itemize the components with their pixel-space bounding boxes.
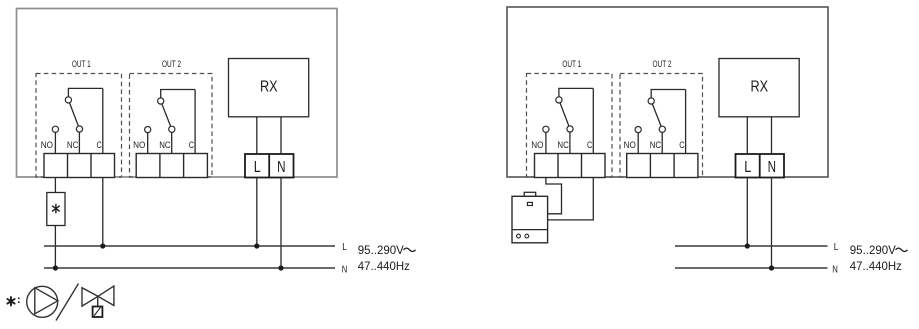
boiler display window (527, 202, 532, 205)
junction: RX L wire on L line (right) (745, 243, 750, 248)
relay K2 pivot contact circle (158, 98, 164, 104)
device enclosure (left receiver unit) (17, 9, 338, 178)
wire: load box down to N line (left) (54, 226, 56, 269)
svg-text:RX: RX (751, 79, 769, 96)
svg-text:L: L (744, 159, 751, 176)
svg-text:OUT 1: OUT 1 (72, 59, 91, 69)
terminal block L/N (right) (736, 154, 785, 178)
wire: RX L terminal down to L line (right) (746, 178, 748, 247)
relay K2 blade tip circle (right) (659, 126, 665, 132)
svg-text:OUT 2: OUT 2 (162, 59, 181, 69)
mains line N (right) (675, 267, 828, 269)
svg-text:RX: RX (260, 79, 278, 96)
valve actuator box (93, 307, 103, 318)
relay K1 contact (right OUT1): common bar wire (559, 88, 593, 100)
svg-text:C: C (189, 140, 195, 150)
junction: RX L wire on L line (left) (254, 243, 259, 248)
wire: N terminal down to N line (left) (280, 178, 282, 269)
svg-text:N: N (768, 159, 776, 176)
relay K2 NO contact circle (right) (635, 127, 641, 133)
relay module OUT1 dashed box (left) (36, 74, 122, 178)
legend colon (18, 298, 20, 304)
svg-text:L: L (342, 241, 347, 253)
svg-text:L: L (254, 159, 261, 176)
AC tilde symbol (left) (404, 248, 416, 251)
svg-text:NC: NC (650, 140, 662, 150)
terminal block OUT2 (right): NO / NC / C (627, 154, 698, 178)
wire: common bar to C terminal (right OUT2) (685, 90, 687, 154)
boiler knob 1 (517, 234, 521, 238)
relay module OUT2 dashed box (right) (620, 74, 703, 178)
valve right wing (98, 286, 114, 306)
wire: L terminal down to L line (left) (256, 178, 258, 247)
relay K1 blade tip circle (76, 126, 82, 132)
svg-text:NC: NC (159, 140, 171, 150)
svg-text:L: L (834, 241, 839, 253)
wire: RX to L terminal (left) (256, 117, 258, 154)
wire: K1 blade tip to NC terminal (left) (78, 129, 80, 154)
svg-text:NO: NO (41, 140, 53, 150)
svg-text:95..290V: 95..290V (358, 243, 404, 257)
svg-text:C: C (587, 140, 593, 150)
svg-text:NC: NC (67, 140, 79, 150)
device enclosure (right receiver unit) (507, 7, 828, 177)
relay K2 contact (left OUT2): common bar wire (161, 90, 195, 102)
boiler body (512, 196, 548, 243)
relay K1 pivot contact circle (right) (556, 97, 562, 103)
terminal block L/N (left) (245, 154, 294, 178)
boiler / controlled appliance symbol (512, 192, 548, 243)
wire: NO terminal down to load box (left) (54, 178, 56, 193)
svg-text:OUT 2: OUT 2 (653, 59, 672, 69)
svg-text:NC: NC (557, 140, 569, 150)
wire: C terminal down to L line (left) (102, 178, 104, 247)
legend asterisk (7, 297, 14, 305)
relay K2 blade tip circle (169, 126, 175, 132)
svg-text:C: C (97, 140, 103, 150)
valve left wing (82, 288, 98, 306)
wire: NO contact stub (right OUT2) (637, 130, 639, 154)
RX receiver box (left) (229, 59, 309, 117)
motorized valve symbol (bowtie with actuator) (82, 286, 114, 317)
relay K2 blade (left OUT2) (161, 101, 172, 129)
relay K2 blade (right OUT2) (651, 101, 662, 129)
wire: common bar to C terminal (left OUT1) (102, 88, 104, 153)
relay K2 NO contact circle (145, 127, 151, 133)
valve stem (97, 296, 99, 306)
relay K1 blade (right OUT1) (559, 100, 570, 129)
relay K1 pivot contact circle (65, 97, 71, 103)
svg-text:47..440Hz: 47..440Hz (358, 259, 410, 273)
wire: NO terminal to boiler (right, with jog) (546, 178, 562, 214)
relay K1 blade tip circle (right) (567, 126, 573, 132)
wire: NO contact stub (right OUT1) (545, 129, 547, 153)
wire: K1 blade tip to NC terminal (right) (569, 129, 571, 154)
boiler panel divider (512, 229, 548, 231)
pump symbol (circle with triangle) (27, 286, 58, 317)
wire: RX N terminal down to N line (right) (771, 178, 773, 269)
junction: load wire on N line (left) (53, 265, 58, 270)
junction: RX N wire on N line (left) (278, 265, 283, 270)
terminal block OUT1 (right): NO / NC / C (535, 154, 606, 178)
terminal block OUT1 (left): NO / NC / C (44, 154, 115, 178)
relay K2 contact (right OUT2): common bar wire (651, 90, 685, 102)
svg-text:95..290V: 95..290V (850, 243, 896, 257)
wire: RX to N terminal (left) (280, 117, 282, 154)
terminal block OUT2 (left): NO / NC / C (136, 154, 207, 178)
junction: RX N wire on N line (right) (769, 265, 774, 270)
relay K1 NO contact circle (52, 126, 58, 132)
svg-text:NO: NO (624, 140, 636, 150)
relay K1 contact (left OUT1): common bar wire (68, 88, 102, 100)
wire: C terminal to boiler (right) (548, 178, 594, 220)
actuator diagonal mark (94, 307, 100, 315)
wire: common bar to C terminal (right OUT1) (592, 88, 594, 153)
asterisk symbol inside load box (53, 204, 60, 212)
wire: common bar to C terminal (left OUT2) (194, 90, 196, 154)
legend separator slash (56, 284, 79, 321)
mains line L (left) (44, 245, 335, 247)
relay K1 blade (left OUT1) (68, 100, 79, 129)
RX receiver box (right) (719, 59, 799, 117)
relay K1 NO contact circle (right) (543, 126, 549, 132)
svg-text:N: N (342, 263, 348, 275)
wire: NO contact stub (left OUT1) (54, 129, 56, 153)
mains line L (right) (675, 245, 828, 247)
wire: K2 blade tip to NC terminal (left) (171, 129, 173, 153)
wire: NO contact stub (left OUT2) (147, 130, 149, 154)
boiler flue stub (524, 192, 536, 196)
wire: RX to L terminal (right) (746, 117, 748, 154)
relay module OUT2 dashed box (left) (130, 74, 213, 178)
svg-text:47..440Hz: 47..440Hz (850, 259, 902, 273)
relay K2 pivot contact circle (right) (648, 98, 654, 104)
wire: K2 blade tip to NC terminal (right) (661, 129, 663, 153)
svg-text:N: N (832, 263, 838, 275)
svg-text:N: N (277, 159, 285, 176)
wire: RX to N terminal (right) (771, 117, 773, 154)
svg-text:NO: NO (531, 140, 543, 150)
mains line N (left) (44, 267, 335, 269)
svg-text:NO: NO (133, 140, 145, 150)
relay module OUT1 dashed box (right) (527, 74, 613, 178)
boiler knob 2 (525, 234, 529, 238)
svg-text:OUT 1: OUT 1 (562, 59, 581, 69)
load box * (pump or valve) (47, 193, 65, 226)
AC tilde symbol (right) (896, 248, 908, 251)
svg-text:C: C (679, 140, 685, 150)
junction: C wire on L line (left) (100, 243, 105, 248)
